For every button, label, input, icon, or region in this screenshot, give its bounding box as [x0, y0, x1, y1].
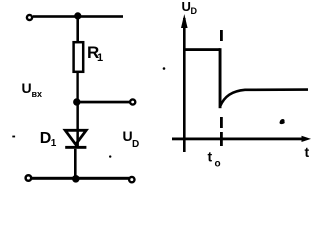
svg-text:t: t	[208, 149, 213, 165]
terminal (input top-left)	[27, 15, 32, 20]
wire (top rail)	[33, 15, 123, 18]
diode D1	[65, 130, 86, 148]
svg-text:U: U	[182, 0, 191, 14]
svg-text:U: U	[22, 80, 32, 96]
wire (diode D1 cathode to bottom rail)	[74, 149, 77, 178]
terminal (output mid-right)	[130, 99, 135, 104]
dashed line (t0 marker below curve)	[220, 117, 223, 146]
label R1	[87, 43, 103, 64]
label Uvx (input voltage)	[22, 80, 43, 99]
label UD (graph ordinate)	[182, 0, 198, 16]
wire (top node to resistor R1)	[76, 16, 79, 42]
svg-text:D: D	[132, 139, 139, 150]
svg-text:t: t	[305, 144, 310, 160]
wire (output node to diode D1 anode)	[76, 102, 79, 146]
svg-text:вх: вх	[32, 89, 43, 99]
wire (resistor R1 to node Uout)	[76, 73, 78, 100]
junction (output node)	[73, 98, 80, 105]
svg-text:o: o	[215, 159, 221, 170]
label UD (output voltage)	[123, 128, 140, 150]
label D1	[40, 130, 57, 149]
label t (abscissa)	[305, 144, 310, 160]
signal (initial high level of UD)	[184, 48, 220, 51]
svg-text:D: D	[191, 6, 198, 16]
signal (exponential recovery curve)	[220, 90, 308, 107]
terminal (bottom-left)	[26, 175, 32, 181]
terminal (bottom-right)	[129, 177, 134, 182]
label t0	[208, 149, 221, 170]
signal (falling edge at t0)	[219, 48, 222, 108]
dashed line (t0 marker above level)	[220, 30, 223, 41]
speck (above t axis right)	[280, 119, 285, 124]
wire (output node to right terminal)	[77, 101, 130, 104]
wire (bottom rail)	[32, 177, 129, 180]
speck (left margin)	[12, 136, 15, 138]
junction (bottom node)	[72, 175, 80, 183]
svg-text:1: 1	[51, 138, 57, 149]
speck (below UD label left circuit)	[109, 155, 111, 157]
axis (vertical UD axis with arrow)	[181, 14, 188, 152]
axis (horizontal t axis with arrow)	[172, 136, 311, 142]
junction (top node)	[74, 12, 81, 19]
resistor R1	[74, 42, 84, 72]
speck (left of UD axis)	[163, 67, 166, 70]
svg-text:D: D	[40, 130, 52, 147]
svg-text:1: 1	[97, 52, 103, 64]
